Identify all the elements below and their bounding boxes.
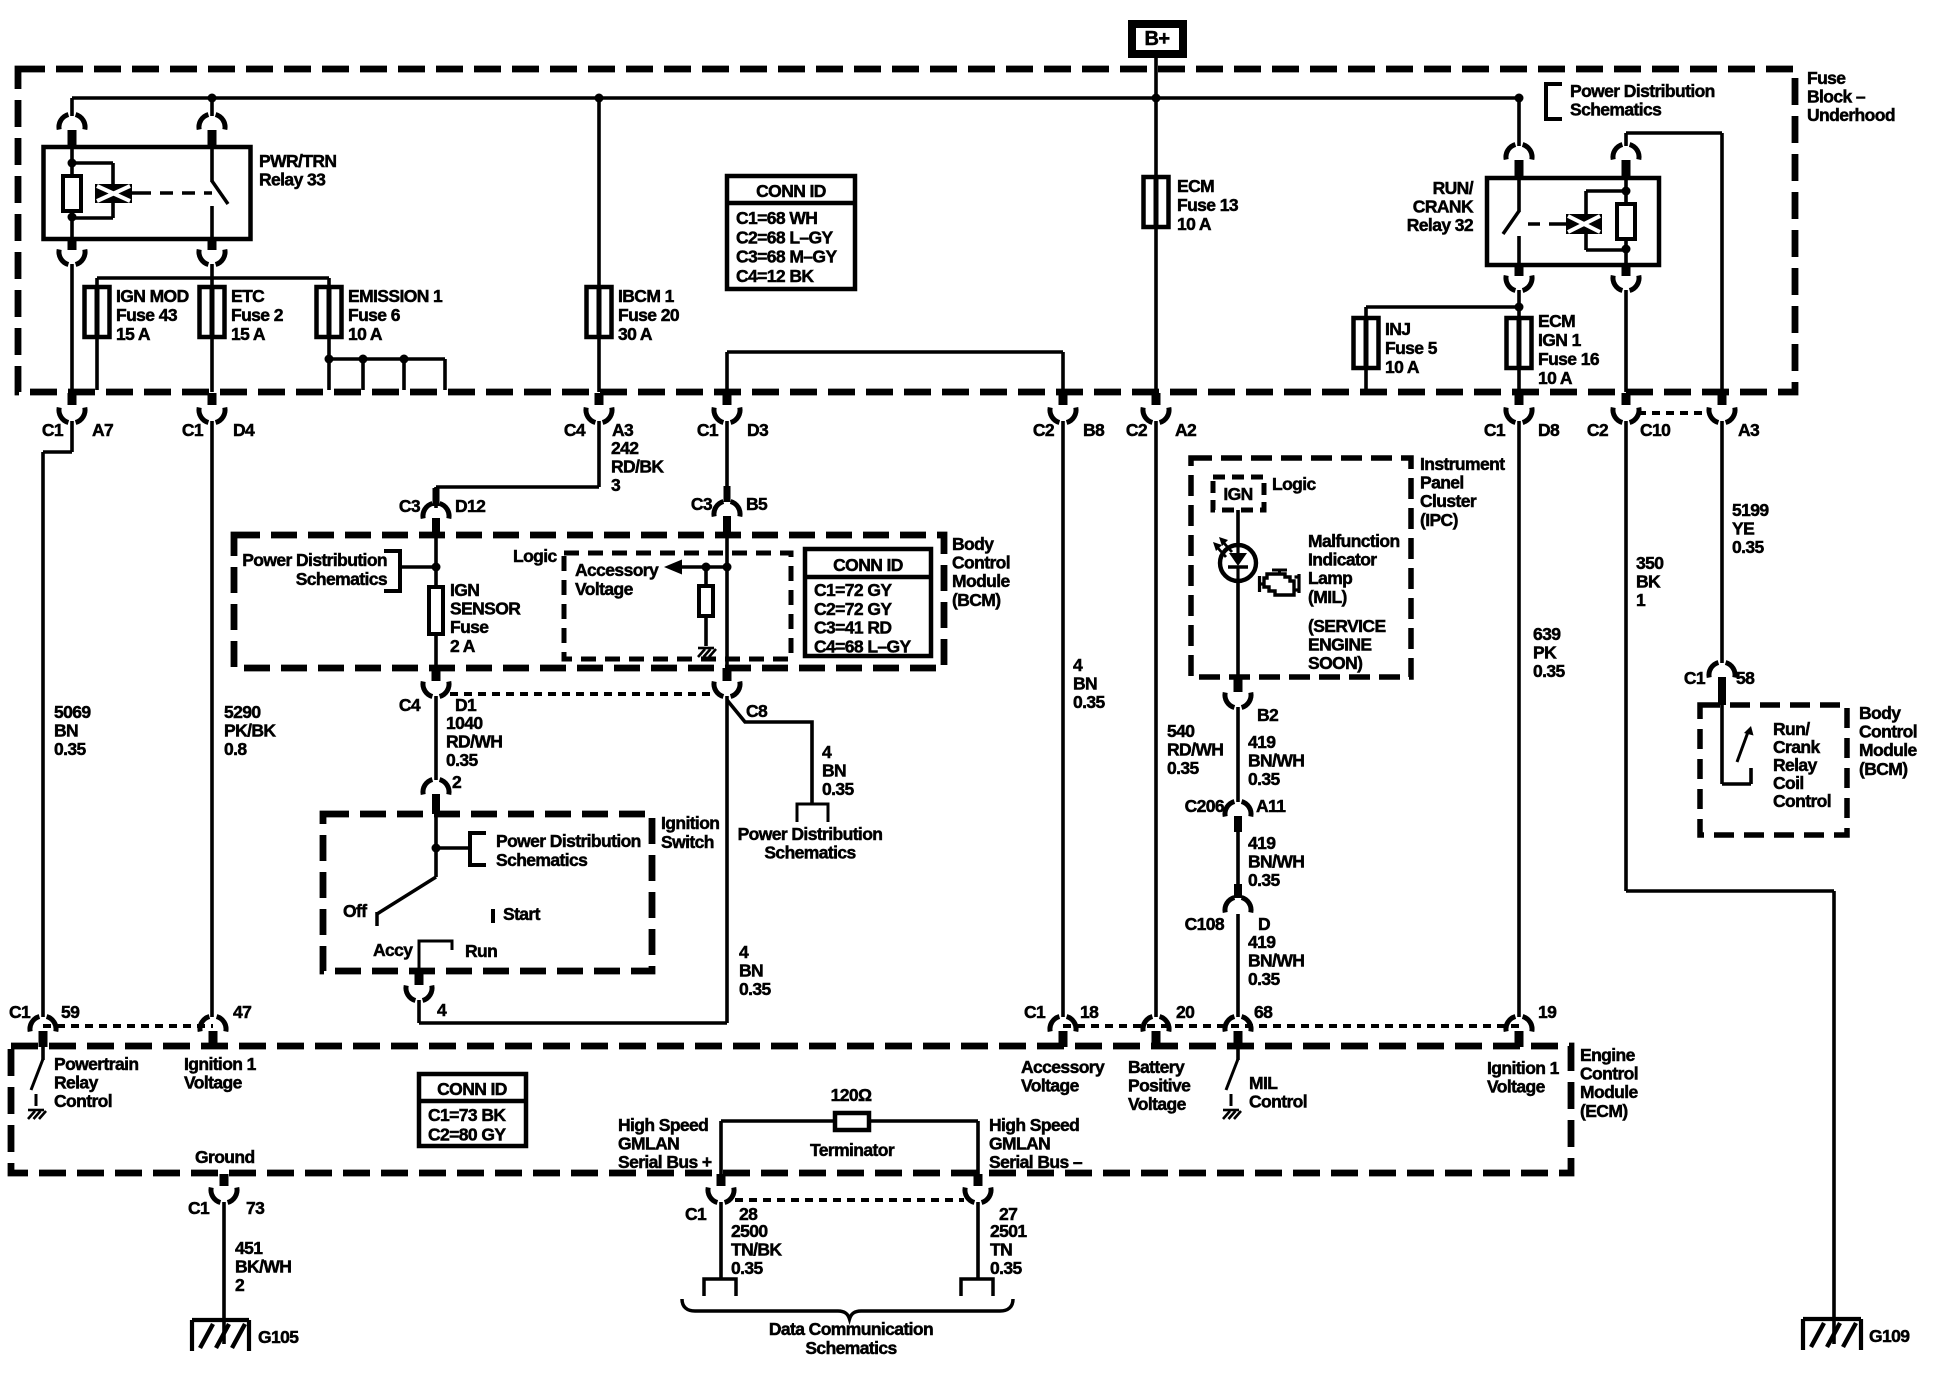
svg-text:C4=12 BK: C4=12 BK [736, 266, 814, 286]
svg-text:IGN: IGN [450, 580, 479, 600]
svg-text:High Speed: High Speed [618, 1115, 708, 1135]
svg-text:0.35: 0.35 [1248, 969, 1281, 989]
svg-text:G109: G109 [1869, 1326, 1910, 1346]
svg-text:Schematics: Schematics [805, 1338, 897, 1358]
svg-text:Indicator: Indicator [1308, 550, 1377, 570]
svg-text:D1: D1 [455, 695, 477, 715]
svg-text:Voltage: Voltage [1128, 1094, 1187, 1114]
svg-text:ETC: ETC [231, 286, 265, 306]
svg-text:D: D [1258, 914, 1270, 934]
svg-text:20: 20 [1176, 1002, 1195, 1022]
svg-text:D12: D12 [455, 496, 486, 516]
svg-text:10 A: 10 A [348, 324, 383, 344]
svg-text:Module: Module [1580, 1082, 1639, 1102]
svg-text:0.35: 0.35 [1732, 537, 1765, 557]
svg-text:0.35: 0.35 [822, 779, 855, 799]
svg-text:(IPC): (IPC) [1420, 510, 1458, 530]
svg-text:73: 73 [246, 1198, 265, 1218]
svg-text:C10: C10 [1640, 420, 1671, 440]
svg-text:BN: BN [1073, 674, 1097, 694]
svg-text:BN/WH: BN/WH [1248, 852, 1304, 872]
svg-text:Module: Module [1859, 740, 1918, 760]
svg-text:CRANK: CRANK [1413, 197, 1474, 217]
svg-text:Logic: Logic [1272, 474, 1317, 494]
svg-text:C1: C1 [1024, 1002, 1046, 1022]
svg-text:(BCM): (BCM) [1859, 759, 1908, 779]
svg-text:5069: 5069 [54, 702, 91, 722]
svg-text:BN: BN [54, 721, 78, 741]
svg-text:ECM: ECM [1538, 311, 1575, 331]
svg-text:RD/WH: RD/WH [1167, 740, 1223, 760]
svg-text:Relay 33: Relay 33 [259, 170, 326, 190]
svg-text:ECM: ECM [1177, 176, 1214, 196]
svg-text:BN: BN [739, 961, 763, 981]
svg-text:C1=72 GY: C1=72 GY [814, 580, 892, 600]
svg-text:419: 419 [1248, 932, 1276, 952]
svg-text:C1: C1 [188, 1198, 210, 1218]
svg-text:0.35: 0.35 [731, 1258, 764, 1278]
svg-text:Schematics: Schematics [764, 843, 856, 863]
svg-text:EMISSION 1: EMISSION 1 [348, 286, 443, 306]
svg-text:C1: C1 [685, 1204, 707, 1224]
svg-text:2: 2 [235, 1275, 245, 1295]
svg-text:Power Distribution: Power Distribution [738, 824, 883, 844]
svg-text:Ignition 1: Ignition 1 [1487, 1058, 1560, 1078]
svg-text:IGN: IGN [1223, 484, 1252, 504]
svg-text:BN/WH: BN/WH [1248, 951, 1304, 971]
svg-text:30 A: 30 A [618, 324, 653, 344]
svg-text:419: 419 [1248, 732, 1276, 752]
svg-text:Body: Body [1859, 703, 1901, 723]
svg-text:C3=68 M–GY: C3=68 M–GY [736, 247, 837, 267]
svg-text:D4: D4 [233, 420, 255, 440]
svg-text:C4: C4 [399, 695, 421, 715]
svg-text:Cluster: Cluster [1420, 491, 1477, 511]
svg-text:C4=68 L–GY: C4=68 L–GY [814, 636, 912, 656]
svg-text:Power Distribution: Power Distribution [1570, 81, 1715, 101]
svg-text:YE: YE [1732, 519, 1754, 539]
svg-text:Schematics: Schematics [496, 850, 588, 870]
svg-text:Logic: Logic [513, 546, 558, 566]
svg-text:C1: C1 [697, 420, 719, 440]
svg-text:4: 4 [1073, 655, 1083, 675]
svg-text:0.35: 0.35 [446, 750, 479, 770]
svg-text:Fuse: Fuse [1807, 68, 1846, 88]
svg-text:Control: Control [1580, 1064, 1638, 1084]
svg-text:18: 18 [1080, 1002, 1099, 1022]
svg-text:350: 350 [1636, 553, 1664, 573]
svg-text:RUN/: RUN/ [1433, 178, 1474, 198]
svg-text:IGN 1: IGN 1 [1538, 330, 1582, 350]
svg-text:GMLAN: GMLAN [989, 1134, 1050, 1154]
svg-text:10 A: 10 A [1385, 357, 1420, 377]
svg-text:BK: BK [1636, 572, 1661, 592]
svg-text:Accy: Accy [373, 940, 413, 960]
svg-text:C2=72 GY: C2=72 GY [814, 599, 892, 619]
svg-text:TN/BK: TN/BK [731, 1240, 782, 1260]
svg-text:Control: Control [1249, 1092, 1307, 1112]
svg-text:Power Distribution: Power Distribution [242, 550, 387, 570]
svg-text:(ECM): (ECM) [1580, 1101, 1628, 1121]
svg-text:0.35: 0.35 [1167, 758, 1200, 778]
svg-text:Fuse: Fuse [450, 617, 489, 637]
svg-text:Fuse 20: Fuse 20 [618, 305, 680, 325]
svg-text:PWR/TRN: PWR/TRN [259, 151, 336, 171]
svg-text:Voltage: Voltage [1021, 1076, 1080, 1096]
svg-text:0.8: 0.8 [224, 739, 247, 759]
svg-text:3: 3 [611, 475, 621, 495]
svg-text:Terminator: Terminator [810, 1140, 895, 1160]
svg-text:C2: C2 [1033, 420, 1055, 440]
svg-text:B2: B2 [1257, 705, 1279, 725]
svg-text:(BCM): (BCM) [952, 590, 1001, 610]
svg-text:C2=68 L–GY: C2=68 L–GY [736, 227, 834, 247]
svg-text:CONN ID: CONN ID [437, 1079, 507, 1099]
svg-text:G105: G105 [258, 1327, 299, 1347]
svg-text:B5: B5 [746, 494, 768, 514]
svg-text:Voltage: Voltage [575, 579, 634, 599]
svg-text:C2: C2 [1126, 420, 1148, 440]
svg-text:BK/WH: BK/WH [235, 1257, 291, 1277]
svg-text:Fuse 2: Fuse 2 [231, 305, 284, 325]
svg-text:Switch: Switch [661, 832, 714, 852]
svg-text:Ground: Ground [195, 1147, 255, 1167]
svg-text:Malfunction: Malfunction [1308, 531, 1400, 551]
svg-text:A11: A11 [1256, 796, 1286, 816]
svg-text:0.35: 0.35 [54, 739, 87, 759]
svg-text:451: 451 [235, 1238, 263, 1258]
svg-text:A3: A3 [612, 420, 634, 440]
svg-text:C108: C108 [1185, 914, 1225, 934]
svg-text:Engine: Engine [1580, 1045, 1636, 1065]
svg-text:59: 59 [61, 1002, 80, 1022]
svg-text:Relay: Relay [1773, 755, 1818, 775]
svg-text:0.35: 0.35 [1248, 769, 1281, 789]
svg-text:540: 540 [1167, 721, 1195, 741]
svg-text:15 A: 15 A [231, 324, 266, 344]
svg-text:Control: Control [1773, 791, 1831, 811]
svg-text:15 A: 15 A [116, 324, 151, 344]
svg-text:BN/WH: BN/WH [1248, 751, 1304, 771]
svg-text:Fuse 43: Fuse 43 [116, 305, 178, 325]
svg-text:Run: Run [465, 941, 497, 961]
svg-text:MIL: MIL [1249, 1073, 1278, 1093]
svg-text:Run/: Run/ [1773, 719, 1810, 739]
svg-text:0.35: 0.35 [1533, 661, 1566, 681]
svg-text:C1=68 WH: C1=68 WH [736, 208, 817, 228]
svg-text:C2=80 GY: C2=80 GY [428, 1125, 506, 1145]
svg-text:Underhood: Underhood [1807, 105, 1895, 125]
svg-text:Voltage: Voltage [1487, 1077, 1546, 1097]
svg-text:Schematics: Schematics [1570, 100, 1662, 120]
svg-text:Crank: Crank [1773, 737, 1820, 757]
svg-text:5199: 5199 [1732, 500, 1769, 520]
svg-text:2501: 2501 [990, 1221, 1027, 1241]
svg-text:Off: Off [343, 901, 367, 921]
svg-text:B8: B8 [1083, 420, 1105, 440]
svg-text:BN: BN [822, 761, 846, 781]
svg-text:639: 639 [1533, 624, 1561, 644]
svg-text:4: 4 [822, 742, 832, 762]
svg-text:C8: C8 [746, 701, 768, 721]
svg-text:C1=73 BK: C1=73 BK [428, 1105, 506, 1125]
svg-text:C4: C4 [564, 420, 586, 440]
svg-text:IGN MOD: IGN MOD [116, 286, 189, 306]
svg-text:C1: C1 [1684, 668, 1706, 688]
svg-text:SOON): SOON) [1308, 653, 1362, 673]
svg-text:Ignition: Ignition [661, 813, 719, 833]
svg-text:Accessory: Accessory [575, 560, 659, 580]
svg-text:0.35: 0.35 [990, 1258, 1023, 1278]
svg-text:19: 19 [1538, 1002, 1557, 1022]
svg-text:C3: C3 [691, 494, 713, 514]
svg-text:C2: C2 [1587, 420, 1609, 440]
svg-text:INJ: INJ [1385, 319, 1410, 339]
svg-text:5290: 5290 [224, 702, 261, 722]
svg-text:Schematics: Schematics [296, 569, 388, 589]
svg-text:Lamp: Lamp [1308, 568, 1352, 588]
svg-text:Body: Body [952, 534, 994, 554]
svg-text:C3=41 RD: C3=41 RD [814, 618, 891, 638]
svg-text:Control: Control [1859, 722, 1917, 742]
svg-text:C3: C3 [399, 496, 421, 516]
svg-text:Instrument: Instrument [1420, 454, 1505, 474]
svg-text:120Ω: 120Ω [831, 1085, 872, 1105]
svg-text:Block –: Block – [1807, 87, 1866, 107]
svg-text:Module: Module [952, 571, 1011, 591]
svg-text:(SERVICE: (SERVICE [1308, 616, 1386, 636]
svg-text:A7: A7 [92, 420, 113, 440]
svg-text:Coil: Coil [1773, 773, 1804, 793]
svg-text:419: 419 [1248, 833, 1276, 853]
svg-text:CONN ID: CONN ID [756, 181, 826, 201]
svg-text:2 A: 2 A [450, 636, 476, 656]
svg-text:Accessory: Accessory [1021, 1057, 1105, 1077]
svg-text:Control: Control [54, 1091, 112, 1111]
svg-text:Fuse 16: Fuse 16 [1538, 349, 1600, 369]
svg-text:10 A: 10 A [1538, 368, 1573, 388]
svg-text:High Speed: High Speed [989, 1115, 1079, 1135]
svg-text:TN: TN [990, 1240, 1012, 1260]
svg-text:PK/BK: PK/BK [224, 721, 276, 741]
svg-text:0.35: 0.35 [739, 979, 772, 999]
svg-text:2: 2 [452, 772, 462, 792]
svg-text:C1: C1 [182, 420, 204, 440]
svg-text:4: 4 [437, 1000, 447, 1020]
svg-text:RD/WH: RD/WH [446, 732, 502, 752]
svg-text:PK: PK [1533, 643, 1557, 663]
svg-text:Fuse 5: Fuse 5 [1385, 338, 1438, 358]
svg-text:58: 58 [1736, 668, 1755, 688]
svg-text:D3: D3 [747, 420, 769, 440]
svg-text:RD/BK: RD/BK [611, 457, 664, 477]
svg-text:(MIL): (MIL) [1308, 587, 1347, 607]
svg-text:Battery: Battery [1128, 1057, 1185, 1077]
svg-text:GMLAN: GMLAN [618, 1134, 679, 1154]
svg-text:Data Communication: Data Communication [769, 1319, 933, 1339]
svg-text:Relay: Relay [54, 1073, 99, 1093]
svg-text:47: 47 [233, 1002, 251, 1022]
svg-text:Serial Bus –: Serial Bus – [989, 1152, 1083, 1172]
svg-text:0.35: 0.35 [1073, 692, 1106, 712]
svg-text:1040: 1040 [446, 713, 483, 733]
svg-text:Start: Start [503, 904, 541, 924]
svg-text:ENGINE: ENGINE [1308, 635, 1372, 655]
svg-text:C1: C1 [42, 420, 64, 440]
svg-text:Control: Control [952, 553, 1010, 573]
svg-text:D8: D8 [1538, 420, 1560, 440]
svg-text:Fuse 13: Fuse 13 [1177, 195, 1239, 215]
svg-text:4: 4 [739, 942, 749, 962]
svg-text:Serial Bus +: Serial Bus + [618, 1152, 712, 1172]
svg-text:SENSOR: SENSOR [450, 599, 521, 619]
svg-text:10 A: 10 A [1177, 214, 1212, 234]
svg-text:Panel: Panel [1420, 473, 1464, 493]
svg-text:242: 242 [611, 438, 639, 458]
svg-text:Positive: Positive [1128, 1076, 1191, 1096]
svg-text:B+: B+ [1145, 28, 1170, 50]
svg-text:Ignition 1: Ignition 1 [184, 1054, 257, 1074]
svg-text:68: 68 [1254, 1002, 1273, 1022]
svg-text:A2: A2 [1175, 420, 1197, 440]
svg-text:Voltage: Voltage [184, 1073, 243, 1093]
svg-text:A3: A3 [1738, 420, 1760, 440]
svg-text:C206: C206 [1185, 796, 1225, 816]
svg-text:C1: C1 [9, 1002, 31, 1022]
svg-text:Relay 32: Relay 32 [1407, 215, 1474, 235]
svg-text:1: 1 [1636, 590, 1646, 610]
svg-text:IBCM 1: IBCM 1 [618, 286, 675, 306]
svg-text:Powertrain: Powertrain [54, 1054, 138, 1074]
svg-text:Fuse 6: Fuse 6 [348, 305, 401, 325]
svg-text:CONN ID: CONN ID [833, 555, 903, 575]
svg-text:Power Distribution: Power Distribution [496, 831, 641, 851]
svg-text:C1: C1 [1484, 420, 1506, 440]
svg-text:2500: 2500 [731, 1221, 768, 1241]
svg-text:0.35: 0.35 [1248, 870, 1281, 890]
